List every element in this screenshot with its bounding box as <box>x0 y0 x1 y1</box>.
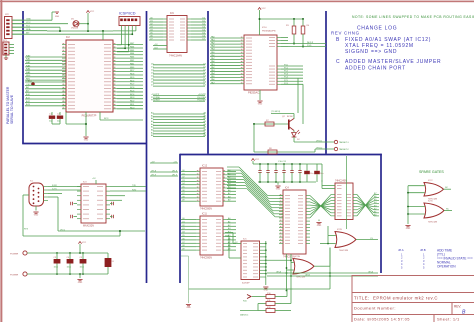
svg-text:10u: 10u <box>310 173 313 175</box>
svg-text:IC4: IC4 <box>285 187 289 190</box>
svg-text:SERIAL TO SLAVE: SERIAL TO SLAVE <box>10 94 14 124</box>
svg-text:ADDED MASTER/SLAVE JUMPER: ADDED MASTER/SLAVE JUMPER <box>345 59 441 65</box>
svg-text:CHNG: CHNG <box>344 31 360 36</box>
svg-text:IC7A: IC7A <box>295 255 300 258</box>
svg-text:+5V/VPP: +5V/VPP <box>151 94 160 96</box>
svg-text:RD0: RD0 <box>130 107 135 109</box>
svg-text:IC7C: IC7C <box>428 180 433 182</box>
svg-text:74HC32N: 74HC32N <box>339 250 349 252</box>
svg-text:GND: GND <box>406 228 411 230</box>
svg-text:RC7: RC7 <box>130 84 135 86</box>
svg-text:ICSP/ICD: ICSP/ICD <box>119 12 136 16</box>
svg-text:74HC164N: 74HC164N <box>169 54 182 58</box>
svg-text:JP1.8: JP1.8 <box>172 170 178 172</box>
svg-text:B: B <box>462 310 466 316</box>
svg-text:B: B <box>336 37 340 43</box>
svg-text:/DSR: /DSR <box>52 185 57 187</box>
svg-text:P8255AC2: P8255AC2 <box>248 91 261 95</box>
svg-text:62256P: 62256P <box>242 283 250 285</box>
svg-text:100n: 100n <box>80 267 84 269</box>
svg-text:GND: GND <box>264 290 269 292</box>
svg-text:JP1.8: JP1.8 <box>151 170 157 172</box>
svg-text:TARGET-2: TARGET-2 <box>339 148 350 151</box>
svg-text:RD5: RD5 <box>130 77 135 79</box>
svg-text:RD3: RD3 <box>130 97 135 99</box>
svg-text:OPERATION: OPERATION <box>437 265 456 269</box>
svg-text:EPROM emulator mk2 rev.C: EPROM emulator mk2 rev.C <box>373 296 438 301</box>
svg-text:JP18.1: JP18.1 <box>316 140 323 142</box>
svg-text:GND: GND <box>317 225 322 227</box>
svg-text:POWER: POWER <box>10 254 19 256</box>
svg-text:OSC1: OSC1 <box>26 80 33 82</box>
svg-text:IC7D: IC7D <box>428 201 433 203</box>
svg-text:REV:: REV: <box>454 305 461 309</box>
svg-text:ADDED CHAIN PORT: ADDED CHAIN PORT <box>345 66 406 72</box>
svg-text:SPARE GATES: SPARE GATES <box>419 170 444 174</box>
svg-text:RTS: RTS <box>24 228 29 230</box>
svg-text:J8.B: J8.B <box>420 248 426 252</box>
svg-text:MAX232N: MAX232N <box>83 225 94 228</box>
svg-text:VCC: VCC <box>262 8 267 10</box>
svg-text:OE.B: OE.B <box>305 274 310 276</box>
svg-text:PGC/RB6: PGC/RB6 <box>151 97 161 99</box>
svg-text:RD6: RD6 <box>130 74 135 76</box>
svg-text:/MCLR: /MCLR <box>307 42 314 44</box>
svg-text:RC6: RC6 <box>130 87 135 89</box>
svg-text:BC547: BC547 <box>287 116 294 118</box>
svg-text:(TO MCU): (TO MCU) <box>271 111 281 113</box>
svg-text:RD1: RD1 <box>130 104 135 106</box>
svg-text:PGD/RB7: PGD/RB7 <box>197 100 207 102</box>
svg-text:RC3: RC3 <box>104 118 109 120</box>
svg-text:OE.A: OE.A <box>368 270 373 273</box>
svg-text:100n: 100n <box>67 267 71 269</box>
svg-text:100n: 100n <box>54 267 58 269</box>
svg-text:GND: GND <box>84 140 89 142</box>
svg-text:Date: 8/05/2005 14:57:05: Date: 8/05/2005 14:57:05 <box>354 317 410 322</box>
svg-text:REV: REV <box>331 31 342 36</box>
svg-text:RXD: RXD <box>132 189 137 191</box>
svg-text:CHANGE LOG: CHANGE LOG <box>357 26 397 32</box>
svg-text:GND: GND <box>186 307 191 309</box>
svg-text:TITLE:: TITLE: <box>354 296 370 301</box>
svg-text:SIGGND ==> GND: SIGGND ==> GND <box>345 49 397 55</box>
svg-text:RC5: RC5 <box>130 90 135 92</box>
svg-text:+5V/VPP: +5V/VPP <box>198 94 207 96</box>
svg-text:GND: GND <box>78 282 83 284</box>
svg-text:ZARDUC: ZARDUC <box>240 314 249 317</box>
svg-text:J8.A: J8.A <box>398 248 404 252</box>
svg-text:PGD/RB7: PGD/RB7 <box>151 100 161 102</box>
svg-text:1N4148: 1N4148 <box>71 28 79 30</box>
svg-text:VCC: VCC <box>82 242 87 244</box>
svg-text:IC11: IC11 <box>202 213 208 216</box>
svg-text:74HC590N: 74HC590N <box>200 208 212 211</box>
svg-text:IC10: IC10 <box>262 27 267 29</box>
svg-text:GND: GND <box>34 215 39 217</box>
svg-text:RxD: RxD <box>243 301 247 303</box>
svg-text:/CTS: /CTS <box>52 188 57 190</box>
svg-text:74HC590N: 74HC590N <box>200 257 212 260</box>
svg-text:CLK: CLK <box>154 48 159 50</box>
svg-text:PIC16F877P: PIC16F877P <box>82 114 97 118</box>
svg-text:VCC: VCC <box>90 11 95 13</box>
svg-text:TARGET-1: TARGET-1 <box>339 141 350 144</box>
svg-text:JP2.1: JP2.1 <box>60 229 66 231</box>
svg-text:Sheet: 1/1: Sheet: 1/1 <box>437 317 460 322</box>
svg-text:Document Number:: Document Number: <box>354 306 396 311</box>
svg-text:JP1.9: JP1.9 <box>172 174 178 176</box>
svg-text:GND: GND <box>55 16 60 18</box>
svg-text:74HC32N: 74HC32N <box>428 222 438 224</box>
svg-text:RD4: RD4 <box>130 80 135 82</box>
svg-text:GND: GND <box>276 189 281 191</box>
svg-text:74HC245N: 74HC245N <box>335 180 347 183</box>
svg-text:PGD: PGD <box>307 45 312 47</box>
svg-text:C: C <box>336 59 340 65</box>
svg-text:IC7B: IC7B <box>337 229 342 231</box>
svg-text:TXD: TXD <box>132 185 137 187</box>
svg-text:IC12: IC12 <box>202 165 208 168</box>
svg-text:OSC2: OSC2 <box>26 84 33 86</box>
svg-text:JP18.2: JP18.2 <box>316 147 323 149</box>
svg-text:IC2: IC2 <box>66 36 70 39</box>
svg-text:OE.A: OE.A <box>276 270 281 273</box>
svg-text:P8255AD2PB: P8255AD2PB <box>262 30 276 33</box>
svg-text:IC9: IC9 <box>170 12 174 15</box>
svg-text:VCC: VCC <box>255 159 260 161</box>
svg-text:JP1.9: JP1.9 <box>151 174 157 176</box>
svg-text:GND: GND <box>258 104 263 106</box>
svg-text:RD2: RD2 <box>130 101 135 103</box>
svg-text:RD7: RD7 <box>130 70 135 72</box>
svg-text:POWER: POWER <box>10 275 19 277</box>
svg-text:NOTE: SOME LINES SWAPPED TO MA: NOTE: SOME LINES SWAPPED TO MAKE PCB ROU… <box>352 15 474 19</box>
svg-text:PGC/RB6: PGC/RB6 <box>197 97 207 99</box>
svg-text:C10-C15: C10-C15 <box>278 161 287 163</box>
svg-text:74HC32N: 74HC32N <box>296 277 306 279</box>
svg-text:RC4: RC4 <box>130 94 135 96</box>
